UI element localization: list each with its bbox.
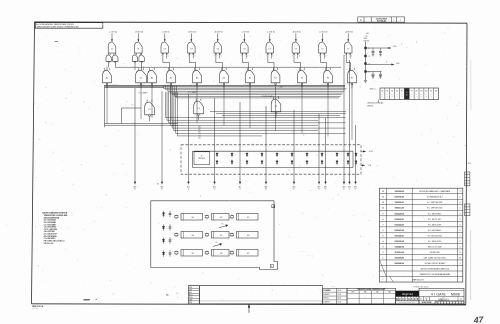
svg-text:R2: R2 — [386, 91, 388, 93]
svg-text:E.C. DEC9-107400: E.C. DEC9-107400 — [428, 235, 442, 237]
svg-text:U: U — [351, 56, 352, 58]
svg-text:H1: H1 — [351, 77, 353, 79]
svg-text:5-2-69: 5-2-69 — [337, 290, 341, 292]
svg-text:1K: 1K — [387, 93, 389, 95]
svg-text:P2: P2 — [318, 188, 320, 190]
svg-text:C1B4,E4: C1B4,E4 — [363, 40, 369, 42]
svg-text:9105526-01: 9105526-01 — [394, 219, 404, 221]
svg-text:PIN 7 GND, ON D-CH,E1-C3: PIN 7 GND, ON D-CH,E1-C3 — [44, 241, 65, 243]
svg-text:47: 47 — [472, 314, 484, 324]
svg-text:C4: C4 — [243, 48, 245, 50]
svg-text:AP2: AP2 — [318, 185, 321, 188]
svg-text:C7: C7 — [347, 48, 349, 50]
svg-text:+L OUT 02: +L OUT 02 — [109, 32, 117, 34]
svg-text:E.C. DEC74 1WC: E.C. DEC74 1WC — [428, 219, 442, 221]
svg-text:1K: 1K — [396, 93, 398, 95]
svg-text:9105341-00: 9105341-00 — [394, 229, 404, 232]
svg-text:C: C — [172, 251, 173, 253]
svg-text:1K: 1K — [416, 93, 418, 95]
svg-text:B: B — [111, 48, 113, 50]
svg-text:T: T — [266, 56, 267, 58]
svg-text:AJ2: AJ2 — [187, 185, 190, 188]
svg-text:A1: A1 — [382, 95, 384, 98]
svg-text:1K: 1K — [401, 93, 403, 95]
svg-text:A: A — [273, 205, 274, 208]
svg-text:C4: C4 — [217, 48, 219, 50]
svg-text:DATE: DATE — [331, 285, 334, 288]
svg-text:E F H J K L: E F H J K L — [164, 84, 170, 86]
svg-text:-15,B: -15,B — [396, 63, 400, 65]
svg-text:C1: C1 — [197, 108, 200, 110]
svg-text:F1: F1 — [301, 77, 303, 79]
svg-text:DIODE D664: DIODE D664 — [430, 252, 440, 254]
svg-text:A2: A2 — [387, 95, 389, 98]
svg-text:E.C. DEC9-10710: E.C. DEC9-10710 — [428, 241, 441, 243]
svg-text:E1 = DEC9-10797: E1 = DEC9-10797 — [44, 234, 57, 236]
svg-text:1/1: 1/1 — [436, 302, 438, 304]
svg-text:L GND A1,C1,F1,N1(B2): L GND A1,C1,F1,N1(B2) — [367, 102, 384, 105]
svg-text:T: T — [161, 56, 162, 58]
svg-text:B: B — [138, 48, 140, 50]
svg-text:4 I GATE: 4 I GATE — [431, 293, 447, 297]
svg-text:R7: R7 — [411, 91, 413, 93]
svg-text:R12: R12 — [435, 91, 438, 93]
svg-text:D: D — [166, 238, 167, 240]
svg-text:1K: 1K — [411, 93, 413, 95]
svg-text:A2: A2 — [151, 76, 153, 79]
svg-text:4: 4 — [382, 241, 384, 243]
svg-text:1001599-00: 1001599-00 — [394, 257, 404, 259]
svg-text:AM2: AM2 — [265, 185, 268, 188]
svg-text:T: T — [292, 56, 293, 58]
svg-text:PARTS LIST: PARTS LIST — [413, 278, 425, 281]
svg-text:+5: +5 — [406, 92, 408, 94]
svg-text:D1: D1 — [140, 77, 142, 79]
svg-text:F2: F2 — [327, 77, 329, 79]
svg-text:1905229-01: 1905229-01 — [394, 202, 404, 204]
svg-text:1K: 1K — [391, 93, 393, 95]
svg-text:E F H J K L: E F H J K L — [295, 84, 301, 86]
svg-text:U: U — [273, 56, 274, 58]
svg-text:1K: 1K — [426, 93, 428, 95]
svg-text:R5: R5 — [401, 91, 403, 93]
svg-text:DRN: DRN — [189, 287, 192, 289]
svg-text:N1: N1 — [293, 188, 295, 190]
svg-text:B02: B02 — [198, 131, 201, 133]
svg-text:B1: B1 — [406, 95, 408, 97]
svg-text:1305422-00: 1305422-00 — [394, 245, 404, 248]
svg-text:U: U — [325, 56, 326, 58]
svg-text:A3: A3 — [411, 95, 413, 98]
svg-text:B: B — [271, 266, 272, 268]
svg-text:C: C — [172, 212, 173, 214]
svg-text:E2: E2 — [355, 188, 357, 190]
svg-text:1: 1 — [460, 208, 461, 210]
svg-text:C: C — [172, 225, 173, 227]
svg-text:E F H J K L: E F H J K L — [217, 84, 223, 86]
svg-text:1: 1 — [460, 235, 461, 237]
svg-text:C2: C2 — [275, 106, 278, 108]
svg-text:EQUIPMENT CORPORATION: EQUIPMENT CORPORATION — [400, 301, 416, 304]
svg-text:DEC: DEC — [376, 292, 379, 294]
svg-text:-B OUT 02: -B OUT 02 — [135, 32, 143, 34]
svg-text:L1: L1 — [239, 188, 241, 190]
svg-text:C7: C7 — [321, 48, 323, 50]
svg-text:0: 0 — [467, 179, 468, 181]
svg-text:E F H J K L: E F H J K L — [191, 84, 197, 86]
svg-text:E.C. CHIP DEC7420: E.C. CHIP DEC7420 — [427, 208, 442, 210]
svg-text:E.C. DEC9-10797: E.C. DEC9-10797 — [428, 224, 441, 226]
svg-text:SIZE: SIZE — [189, 302, 192, 304]
svg-text:T: T — [319, 56, 320, 58]
svg-text:+15,B: +15,B — [393, 46, 397, 48]
svg-text:RES. 1K 5% 1/4W: RES. 1K 5% 1/4W — [428, 246, 442, 248]
svg-text:T: T — [345, 56, 346, 58]
svg-text:+5V: +5V — [366, 33, 370, 35]
svg-text:3: 3 — [382, 246, 384, 248]
svg-text:-C OUT 00: -C OUT 00 — [319, 32, 327, 34]
svg-text:R1: R1 — [325, 188, 327, 190]
svg-text:K2: K2 — [214, 188, 216, 190]
svg-text:M2: M2 — [265, 188, 267, 190]
svg-text:-B OUT 00: -B OUT 00 — [215, 32, 223, 34]
svg-text:E3: E3 — [192, 217, 194, 219]
svg-text:R1: R1 — [382, 91, 384, 93]
svg-text:5-2-69: 5-2-69 — [337, 294, 341, 296]
svg-text:B00: B00 — [198, 127, 201, 129]
svg-text:FORM NO. DEC 16-1041: FORM NO. DEC 16-1041 — [414, 287, 429, 289]
svg-text:1: 1 — [467, 176, 468, 178]
svg-text:B05: B05 — [198, 138, 201, 140]
svg-text:F1 = DEC8251C: F1 = DEC8251C — [44, 238, 57, 240]
svg-text:A.BLACK: A.BLACK — [323, 293, 329, 296]
svg-text:T,GND B2: T,GND B2 — [367, 105, 373, 107]
svg-text:E9: E9 — [192, 253, 194, 255]
svg-text:5-7-69: 5-7-69 — [337, 302, 341, 304]
svg-text:CHK: CHK — [189, 289, 192, 291]
svg-text:C7: C7 — [269, 48, 271, 50]
svg-text:E1: E1 — [249, 77, 251, 79]
svg-text:1K: 1K — [382, 93, 384, 95]
svg-text:A1: A1 — [106, 76, 108, 79]
svg-text:6: 6 — [382, 230, 384, 232]
svg-text:R1: R1 — [216, 242, 218, 244]
svg-text:AV2: AV2 — [348, 185, 351, 188]
svg-text:ETCHED CIRCUIT BOARD: ETCHED CIRCUIT BOARD — [425, 262, 446, 265]
svg-text:A3: A3 — [391, 95, 393, 98]
svg-text:ENG: ENG — [189, 292, 192, 294]
svg-text:1: 1 — [467, 182, 468, 184]
svg-text:A4: A4 — [396, 95, 398, 98]
svg-text:1: 1 — [382, 257, 384, 259]
svg-text:12: 12 — [382, 197, 385, 199]
svg-text:CIRCUIT SCH ATTACHED (SEE B-C: CIRCUIT SCH ATTACHED (SEE B-CS) — [420, 267, 449, 270]
svg-text:B-1704-44: B-1704-44 — [377, 20, 386, 23]
svg-text:+T CL SMP1: +T CL SMP1 — [138, 93, 147, 95]
svg-text:B1: B1 — [170, 77, 172, 79]
svg-text:C: C — [172, 238, 173, 240]
svg-text:A: A — [360, 19, 362, 22]
svg-text:C1: C1 — [148, 109, 151, 111]
svg-text:0: 0 — [467, 173, 468, 175]
svg-text:R9: R9 — [421, 91, 423, 93]
svg-text:E5: E5 — [220, 235, 222, 237]
svg-text:D: D — [166, 212, 167, 214]
svg-text:E2: E2 — [220, 217, 222, 219]
svg-text:DEC: DEC — [352, 292, 355, 294]
svg-text:E F H J K L: E F H J K L — [269, 84, 275, 86]
svg-text:E6: E6 — [192, 235, 194, 237]
svg-text:AH1: AH1 — [161, 185, 164, 188]
svg-text:B2: B2 — [196, 77, 198, 79]
svg-text:U: U — [168, 56, 169, 58]
svg-text:A4: A4 — [435, 95, 437, 98]
svg-text:AK2: AK2 — [213, 185, 216, 188]
svg-text:-L IN: -L IN — [368, 165, 372, 167]
svg-text:2: 2 — [460, 197, 461, 199]
svg-text:A3: A3 — [430, 95, 432, 98]
svg-text:T: T — [241, 56, 242, 58]
svg-text:9: 9 — [382, 213, 384, 215]
svg-text:-A OUT 00: -A OUT 00 — [293, 31, 301, 34]
svg-text:E F H J K L: E F H J K L — [244, 84, 250, 86]
svg-text:1209328-00: 1209328-00 — [394, 191, 404, 193]
svg-text:E2: E2 — [274, 77, 276, 79]
svg-text:2: 2 — [460, 213, 461, 215]
svg-text:2: 2 — [460, 230, 461, 232]
svg-text:9105340-01: 9105340-01 — [394, 234, 404, 237]
svg-text:E7: E7 — [247, 253, 249, 255]
svg-text:B01: B01 — [198, 129, 201, 131]
svg-text:PROD: PROD — [189, 297, 193, 299]
svg-text:-A OUT 01: -A OUT 01 — [345, 31, 353, 34]
svg-text:R3: R3 — [391, 91, 393, 93]
svg-text:E2: E2 — [134, 188, 136, 190]
svg-text:U: U — [247, 56, 248, 58]
svg-text:R1: R1 — [222, 223, 224, 225]
svg-text:D2: D2 — [223, 77, 225, 79]
svg-text:E8: E8 — [220, 253, 222, 255]
svg-text:E4: E4 — [247, 235, 249, 237]
svg-text:E F H J K L: E F H J K L — [112, 84, 118, 86]
svg-text:D: D — [166, 225, 167, 227]
svg-text:C3: C3 — [164, 48, 166, 50]
svg-text:A2: A2 — [426, 95, 428, 98]
svg-text:CAP. .01MFD 100V 20% DISC: CAP. .01MFD 100V 20% DISC — [424, 256, 447, 259]
svg-text:15: 15 — [201, 156, 203, 158]
svg-text:N.PHILL: N.PHILL — [323, 298, 329, 300]
svg-text:H1: H1 — [161, 188, 163, 190]
svg-text:D: D — [166, 251, 167, 253]
svg-text:TRANSISTOR & DIODE AREA DIAGRA: TRANSISTOR & DIODE AREA DIAGRAM — [419, 273, 450, 276]
svg-text:C3: C3 — [190, 48, 192, 50]
svg-text:2: 2 — [382, 252, 384, 254]
svg-text:E.C. CHIP DEC7400: E.C. CHIP DEC7400 — [427, 202, 442, 204]
svg-text:1: 1 — [460, 224, 461, 226]
svg-text:5-6-69: 5-6-69 — [337, 298, 341, 300]
svg-text:+L IN: +L IN — [369, 151, 374, 153]
svg-text:12: 12 — [459, 257, 461, 259]
svg-text:1: 1 — [460, 246, 461, 248]
svg-text:V2: V2 — [349, 188, 351, 190]
svg-text:1K: 1K — [430, 93, 432, 95]
svg-text:BE2: BE2 — [354, 186, 357, 188]
svg-text:1: 1 — [460, 219, 461, 221]
svg-text:MOUNTING PANEL ASSY + HARDWARE: MOUNTING PANEL ASSY + HARDWARE — [419, 190, 451, 193]
svg-text:9105342-00: 9105342-00 — [394, 223, 404, 226]
svg-text:9105740-00: 9105740-00 — [394, 196, 404, 199]
svg-text:C7: C7 — [295, 48, 297, 50]
svg-text:-L OUT 00: -L OUT 00 — [241, 32, 249, 34]
svg-text:M906: M906 — [451, 293, 460, 297]
svg-text:10: 10 — [382, 208, 385, 210]
svg-text:5009246-00: 5009246-00 — [394, 262, 404, 265]
svg-text:4: 4 — [400, 20, 401, 22]
svg-text:-L OUT 01: -L OUT 01 — [162, 32, 170, 34]
svg-text:A1: A1 — [401, 95, 403, 98]
svg-text:9105528-00: 9105528-00 — [394, 213, 404, 215]
svg-text:A: A — [460, 298, 462, 301]
svg-text:E.C. DEC74H40-1: E.C. DEC74H40-1 — [428, 230, 441, 232]
svg-text:ECO: ECO — [468, 163, 472, 165]
svg-text:1: 1 — [460, 191, 461, 193]
svg-text:U: U — [221, 56, 222, 58]
svg-text:R4: R4 — [396, 91, 398, 93]
svg-text:E F H J K L: E F H J K L — [322, 84, 328, 86]
svg-text:2: 2 — [460, 241, 461, 243]
svg-text:5: 5 — [382, 235, 384, 237]
svg-text:EIA: EIA — [364, 291, 366, 294]
svg-text:R.GAMBA: R.GAMBA — [323, 289, 331, 292]
svg-text:DEC FORM: DEC FORM — [32, 307, 38, 309]
svg-text:1: 1 — [460, 263, 461, 265]
svg-text:7: 7 — [382, 224, 384, 226]
svg-text:11: 11 — [382, 202, 385, 204]
svg-text:1105314-00: 1105314-00 — [395, 251, 405, 254]
svg-text:C2B4: C2B4 — [363, 38, 367, 40]
svg-text:D.SMITH: D.SMITH — [323, 302, 329, 304]
svg-text:8: 8 — [382, 219, 384, 221]
svg-text:AL1: AL1 — [239, 185, 242, 188]
svg-text:PROJ: PROJ — [189, 294, 193, 296]
svg-text:E.C. DEC74H40C: E.C. DEC74H40C — [428, 213, 442, 215]
svg-text:E1: E1 — [247, 217, 249, 219]
svg-text:9105339-00: 9105339-00 — [394, 241, 404, 243]
svg-text:AE2: AE2 — [134, 185, 137, 188]
svg-text:GND, L2: GND, L2 — [370, 89, 376, 91]
svg-text:4: 4 — [460, 202, 461, 204]
svg-text:E F H J K L: E F H J K L — [348, 84, 354, 86]
svg-text:-B OUT 01: -B OUT 01 — [188, 32, 196, 34]
svg-text:RECVRS: RECVRS — [199, 158, 205, 160]
svg-text:+L OUT 00: +L OUT 00 — [266, 32, 274, 34]
svg-text:1K: 1K — [421, 93, 423, 95]
svg-text:D: D — [420, 299, 422, 301]
svg-text:STORAGE ASSY A-7: STORAGE ASSY A-7 — [427, 196, 443, 199]
svg-text:J2: J2 — [188, 188, 190, 190]
svg-text:1905613-00: 1905613-00 — [394, 208, 404, 210]
svg-text:AU2: AU2 — [343, 185, 346, 188]
svg-text:B04: B04 — [198, 135, 201, 137]
svg-text:MALES STANDARD NOTATION:: MALES STANDARD NOTATION: — [42, 212, 68, 215]
svg-text:C: C — [393, 20, 394, 22]
svg-text:T: T — [188, 56, 189, 58]
svg-text:R10: R10 — [425, 91, 428, 93]
svg-text:C2: C2 — [368, 56, 370, 58]
svg-text:AN1: AN1 — [293, 185, 296, 188]
svg-text:M906-0-1: M906-0-1 — [438, 299, 449, 302]
svg-text:13: 13 — [382, 191, 385, 193]
svg-text:1K: 1K — [435, 93, 437, 95]
svg-text:8: 8 — [460, 252, 461, 254]
svg-text:U: U — [194, 56, 195, 58]
svg-text:R11: R11 — [430, 91, 433, 93]
svg-text:U: U — [299, 56, 300, 58]
svg-text:R8: R8 — [416, 91, 418, 93]
svg-text:AR1: AR1 — [324, 185, 327, 188]
svg-text:U2: U2 — [343, 188, 345, 190]
svg-text:EIA: EIA — [388, 291, 390, 294]
svg-text:CS: CS — [425, 298, 427, 300]
svg-text:ALL DIODES ARE D664. RESISTORS: ALL DIODES ARE D664. RESISTORS ARE 1/4W;… — [36, 23, 75, 26]
svg-text:A4: A4 — [416, 95, 418, 98]
svg-text:A1: A1 — [421, 95, 423, 98]
